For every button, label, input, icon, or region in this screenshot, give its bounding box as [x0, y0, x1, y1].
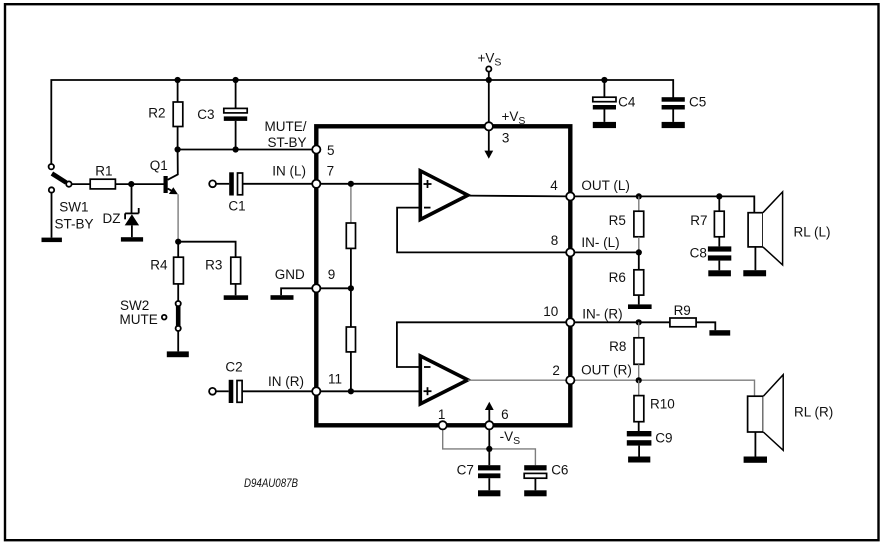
- svg-text:IN- (L): IN- (L): [581, 235, 619, 250]
- capacitor C4: [593, 80, 616, 122]
- svg-text:C9: C9: [655, 431, 672, 446]
- svg-text:R3: R3: [205, 258, 222, 273]
- node -Vs junction: [486, 446, 492, 452]
- wire IN-(R) to R9: [574, 321, 670, 323]
- ground C7: [478, 490, 500, 496]
- ground R3: [224, 295, 248, 300]
- node IN-(L): [636, 249, 642, 255]
- node base junction: [128, 181, 134, 187]
- resistor R8: [634, 322, 644, 380]
- terminal +Vs: [486, 66, 491, 71]
- resistor R3: [231, 257, 241, 295]
- svg-text:C6: C6: [551, 463, 568, 478]
- svg-text:Q1: Q1: [150, 158, 168, 173]
- svg-text:5: 5: [327, 143, 335, 158]
- resistor R2: [173, 80, 183, 150]
- IC box: [316, 126, 570, 425]
- arrow +Vs into pin3: [484, 130, 493, 159]
- node +Vs rail junction at C3: [233, 77, 239, 83]
- svg-text:C5: C5: [689, 95, 706, 110]
- node OUT(L)-R7: [716, 193, 722, 199]
- label SW1 block: [54, 199, 93, 231]
- wire op1 output: [468, 195, 571, 198]
- svg-text:7: 7: [327, 164, 335, 179]
- svg-text:C4: C4: [618, 95, 636, 110]
- ground SW2: [167, 351, 189, 357]
- svg-text:MUTE/: MUTE/: [265, 119, 307, 134]
- svg-text:RL (R): RL (R): [794, 405, 833, 420]
- wire pin8 to R5/R6: [574, 251, 638, 253]
- pin 5: [312, 145, 320, 153]
- pin 11: [312, 387, 320, 395]
- svg-text:3: 3: [502, 130, 510, 145]
- svg-text:R5: R5: [609, 213, 626, 228]
- node rail2-R2: [175, 146, 181, 152]
- svg-text:8: 8: [551, 233, 559, 248]
- wire GND pin9: [281, 288, 351, 295]
- svg-text:2: 2: [552, 363, 560, 378]
- resistor R4: [174, 242, 184, 301]
- ground C8: [708, 270, 731, 276]
- op-amp U1B: [420, 356, 468, 404]
- svg-text:C7: C7: [457, 463, 474, 478]
- wire mid rail to pin 5: [178, 149, 317, 151]
- speaker RL(L): [748, 192, 783, 270]
- node in(L) divider: [348, 181, 354, 187]
- wire op2 +input: [316, 390, 420, 392]
- wire emitter to R3: [178, 242, 235, 258]
- ground SW1: [42, 238, 62, 243]
- resistor internal divider lower: [346, 288, 355, 391]
- zener diode DZ: [125, 184, 139, 237]
- svg-text:OUT (L): OUT (L): [581, 178, 630, 193]
- op-amp U1A: [420, 171, 468, 220]
- svg-text:IN- (R): IN- (R): [582, 307, 623, 322]
- pin 6: [485, 421, 493, 429]
- speaker RL(R): [748, 375, 784, 457]
- svg-text:ST-BY: ST-BY: [267, 135, 306, 150]
- svg-text:4: 4: [550, 178, 558, 193]
- svg-text:SW1: SW1: [59, 199, 88, 214]
- wire op2 feedback: [397, 322, 570, 367]
- node IN-(R): [636, 319, 642, 325]
- ground C5: [662, 122, 685, 128]
- svg-text:R2: R2: [148, 105, 165, 120]
- wire +Vs input stub: [488, 72, 490, 123]
- node +Vs rail junction at C4: [601, 77, 607, 83]
- capacitor C2: [209, 380, 316, 403]
- ground R9: [709, 330, 730, 335]
- node gnd divider: [348, 285, 354, 291]
- capacitor C8: [708, 246, 731, 270]
- ground R6: [628, 304, 652, 309]
- svg-text:DZ: DZ: [103, 211, 121, 226]
- ground DZ: [121, 237, 143, 241]
- svg-text:R9: R9: [674, 303, 691, 318]
- pin 7: [312, 180, 320, 188]
- svg-text:OUT (R): OUT (R): [581, 363, 632, 378]
- resistor R9: [670, 318, 715, 330]
- wire pin1 to supply node: [443, 429, 490, 449]
- capacitor C7: [478, 449, 500, 490]
- svg-text:R6: R6: [609, 270, 626, 285]
- node rail2-C3: [233, 146, 239, 152]
- wire +Vs top rail: [51, 80, 673, 164]
- resistor R7: [714, 196, 724, 246]
- node in(R) divider: [348, 388, 354, 394]
- svg-text:R10: R10: [650, 396, 675, 411]
- arrow -Vs out of pin6: [485, 402, 494, 422]
- svg-text:IN (L): IN (L): [272, 164, 306, 179]
- svg-text:R4: R4: [150, 258, 168, 273]
- pin 4: [566, 192, 574, 200]
- svg-text:R8: R8: [609, 339, 626, 354]
- ground GND pin9: [271, 295, 294, 300]
- svg-text:9: 9: [328, 267, 336, 282]
- label SW2 block: [120, 298, 158, 327]
- capacitor C5: [662, 97, 685, 122]
- resistor R1: [72, 179, 164, 189]
- svg-text:IN (R): IN (R): [268, 374, 304, 389]
- wire op2 output: [468, 379, 571, 381]
- capacitor C1: [209, 172, 316, 195]
- label MUTE/ST-BY: [265, 119, 307, 150]
- node emitter junction: [175, 239, 181, 245]
- svg-text:MUTE: MUTE: [120, 312, 158, 327]
- svg-text:R7: R7: [690, 213, 707, 228]
- wire pin6 to supply node: [488, 429, 490, 449]
- node OUT(L)-R5: [636, 193, 642, 199]
- svg-text:GND: GND: [275, 267, 305, 282]
- svg-text:SW2: SW2: [120, 298, 149, 313]
- pin 2: [566, 376, 574, 384]
- svg-text:10: 10: [543, 304, 558, 319]
- ground C6: [524, 490, 546, 496]
- wire OUT(R): [574, 380, 754, 396]
- capacitor C6: [524, 465, 546, 490]
- resistor R10: [634, 380, 644, 431]
- transistor Q1: [164, 150, 179, 242]
- ground RL(R): [744, 457, 767, 463]
- svg-text:C8: C8: [690, 246, 707, 261]
- pin 9: [312, 284, 320, 292]
- svg-text:ST-BY: ST-BY: [54, 217, 93, 232]
- pin 1: [439, 421, 447, 429]
- capacitor C3: [224, 80, 247, 150]
- capacitor C9: [627, 431, 652, 457]
- svg-text:D94AU087B: D94AU087B: [244, 476, 298, 490]
- wire OUT(L): [574, 196, 754, 212]
- resistor R5: [634, 196, 644, 252]
- pin 8: [566, 248, 574, 256]
- ground C9: [628, 457, 650, 463]
- pin 10: [566, 318, 574, 326]
- wire op1 feedback: [397, 208, 570, 253]
- wire supply node to C6: [489, 449, 535, 465]
- svg-text:R1: R1: [95, 163, 112, 178]
- svg-text:6: 6: [501, 407, 509, 422]
- node OUT(R)-R10: [636, 377, 642, 383]
- svg-text:11: 11: [328, 371, 342, 386]
- ground C4: [593, 122, 616, 128]
- svg-text:RL (L): RL (L): [794, 225, 831, 240]
- svg-text:C3: C3: [197, 107, 214, 122]
- node +Vs rail junction at pin3: [486, 77, 492, 83]
- node +Vs rail junction at R2: [175, 77, 181, 83]
- switch SW2: [176, 301, 181, 351]
- wire op1 +input: [316, 183, 420, 185]
- switch SW1: [49, 164, 72, 238]
- svg-text:C1: C1: [228, 199, 245, 214]
- ground RL(L): [743, 270, 766, 276]
- resistor R6: [634, 252, 644, 304]
- svg-text:C2: C2: [225, 359, 242, 374]
- pin 3: [485, 122, 493, 130]
- svg-text:1: 1: [438, 407, 446, 422]
- terminal MUTE indicator: [162, 315, 167, 320]
- resistor internal divider upper: [346, 184, 355, 288]
